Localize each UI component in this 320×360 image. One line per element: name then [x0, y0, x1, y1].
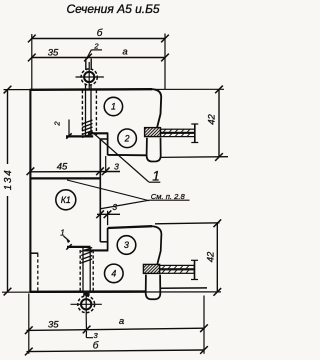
svg-text:4: 4 [111, 269, 116, 279]
svg-text:См. п. 2.8: См. п. 2.8 [151, 192, 186, 201]
svg-text:2: 2 [93, 42, 99, 51]
svg-text:б: б [93, 339, 99, 351]
svg-text:3: 3 [94, 331, 99, 340]
svg-text:а: а [122, 47, 127, 58]
svg-text:42: 42 [207, 114, 218, 125]
svg-text:К1: К1 [61, 195, 71, 205]
svg-text:1: 1 [111, 102, 116, 112]
svg-text:3: 3 [112, 202, 117, 212]
svg-text:а: а [119, 316, 124, 327]
svg-text:42: 42 [206, 251, 217, 262]
svg-text:б: б [97, 27, 103, 39]
svg-text:2: 2 [53, 121, 62, 127]
svg-text:1: 1 [152, 168, 160, 183]
svg-text:35: 35 [48, 320, 59, 331]
svg-text:35: 35 [48, 47, 59, 58]
svg-text:45: 45 [57, 161, 68, 172]
svg-text:Сечения А5 и.Б5: Сечения А5 и.Б5 [67, 2, 160, 16]
svg-text:134: 134 [3, 169, 14, 191]
svg-text:3: 3 [114, 161, 119, 171]
svg-text:2: 2 [124, 134, 130, 144]
svg-text:3: 3 [124, 240, 129, 250]
